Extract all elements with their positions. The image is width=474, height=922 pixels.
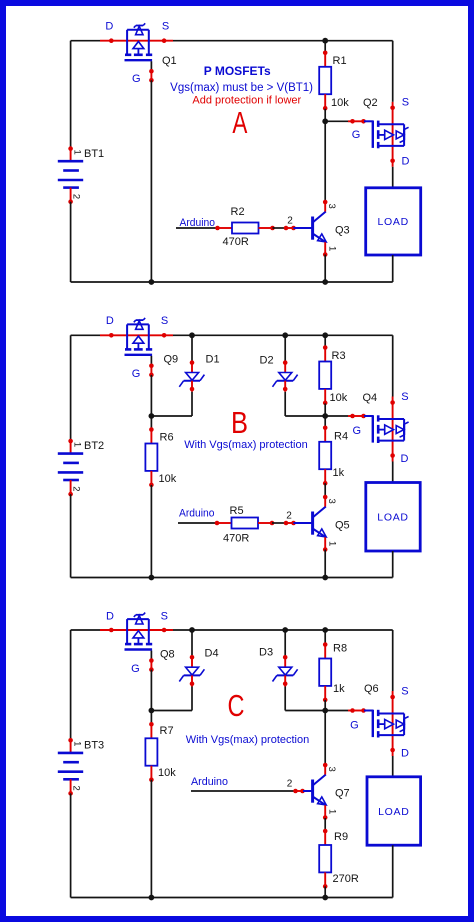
wire top rail section A [71,40,100,42]
battery BT2 [68,439,73,444]
svg-text:R9: R9 [334,831,348,843]
svg-text:1: 1 [72,149,83,154]
junction R8 top [322,627,328,633]
wire battery BT3 to rail C [70,793,72,897]
svg-text:C: C [228,688,245,723]
svg-text:1: 1 [327,246,338,251]
svg-text:B: B [231,405,248,440]
wire Arduino input C [191,790,296,792]
resistor R7 [150,724,152,738]
svg-text:R1: R1 [333,55,347,67]
junction R6 / rail B [149,575,155,581]
svg-text:G: G [132,73,141,85]
wire R7 bottom to rail C [150,780,152,898]
wire Q7 emitter to R9 [324,818,326,831]
svg-text:R7: R7 [160,725,174,737]
svg-text:Q8: Q8 [160,649,175,661]
svg-text:P MOSFETs: P MOSFETs [204,64,271,78]
wire R2 to Q3 base [273,227,287,229]
resistor R3 [324,348,326,362]
junction D3 top [282,627,288,633]
junction Q3 emitter / rail A [322,279,328,285]
wire right column B top [392,335,394,396]
svg-text:2: 2 [286,511,292,522]
svg-text:10k: 10k [330,392,348,404]
svg-text:1: 1 [72,741,83,746]
wire battery BT2 to rail B [70,494,72,577]
wire R4 bottom to Q5 collector [324,483,326,497]
wire R8 bottom to node [324,700,326,711]
svg-text:LOAD: LOAD [377,216,408,228]
svg-text:D: D [106,315,114,327]
wire Q5 emitter to rail B [324,550,326,578]
svg-text:S: S [161,315,168,327]
junction gate node C (R7 top) [149,708,155,714]
wire LOAD A to bottom rail [392,255,394,282]
svg-text:G: G [131,663,140,675]
svg-text:LOAD: LOAD [377,512,408,524]
svg-text:3: 3 [326,767,337,772]
wire node A down to Q3 collector [324,121,326,201]
zener diode D4 [191,630,193,657]
svg-text:BT2: BT2 [84,440,104,452]
svg-text:Q9: Q9 [164,354,179,366]
svg-text:Q2: Q2 [363,97,378,109]
wire R1 top lead [324,41,326,53]
resistor R5 [217,522,232,524]
svg-text:With Vgs(max) protection: With Vgs(max) protection [186,734,309,746]
svg-text:R5: R5 [230,505,244,517]
svg-text:With Vgs(max) protection: With Vgs(max) protection [184,439,307,451]
svg-text:D: D [401,453,409,465]
wire R6 top lead [150,416,152,430]
svg-text:270R: 270R [333,873,359,885]
wire R8 top lead [324,630,326,645]
wire node C to Q6 gate [325,710,348,712]
wire R6 bottom to rail B [150,485,152,578]
svg-text:D3: D3 [259,647,273,659]
junction gate node B (R6 top) [149,413,155,419]
svg-text:Vgs(max) must be > V(BT1): Vgs(max) must be > V(BT1) [170,82,313,94]
wire left column C [70,630,72,740]
svg-text:10k: 10k [331,97,349,109]
svg-text:Arduino: Arduino [191,776,228,788]
load block LOAD (C) [367,777,421,845]
wire D1 bottom to gate node B [191,392,193,416]
svg-text:Q4: Q4 [363,392,378,404]
wire bottom rail section B [71,577,393,579]
wire Arduino input B [178,522,217,524]
svg-text:1: 1 [327,541,338,546]
svg-text:D4: D4 [205,648,219,660]
wire D3 bottom to R8/Q7 node [284,687,286,711]
wire Q2 drain to LOAD A [392,167,394,188]
wire Q4 drain to LOAD B [392,462,394,483]
transistor Q5 (NPN) [311,512,314,535]
zener diode D2 [284,335,286,362]
load block LOAD (A) [366,188,421,255]
svg-text:1: 1 [72,442,83,447]
resistor R1 [324,53,326,67]
svg-text:S: S [162,21,169,33]
svg-text:1k: 1k [333,467,345,479]
wire top rail section B [71,334,100,336]
svg-text:LOAD: LOAD [378,806,409,818]
svg-text:R3: R3 [332,350,346,362]
junction node R3/R4/Q4 gate [322,413,328,419]
wire R3 bottom to node [324,403,326,416]
battery BT3 [68,738,73,743]
junction R3 top [322,332,328,338]
zener diode D1 [191,335,193,362]
svg-text:R6: R6 [160,432,174,444]
svg-text:R8: R8 [333,643,347,655]
svg-text:G: G [352,129,361,141]
junction R9 / rail C [322,895,328,901]
resistor R2 [218,227,233,229]
wire D2 bottom to R3/R4 node [284,392,286,416]
resistor R9 [324,831,326,845]
junction node R1/Q2 gate/Q3 collector [322,118,328,124]
wire right column A top [392,41,394,102]
junction Q5 emitter / rail B [322,575,328,581]
svg-text:BT1: BT1 [84,148,104,160]
wire R1 bottom to gate node A [324,109,326,122]
svg-text:G: G [350,720,359,732]
load block LOAD (B) [366,483,420,552]
svg-text:10k: 10k [158,767,176,779]
mosfet Q1 (P-channel, D left / S right) [100,40,127,42]
svg-text:Q7: Q7 [335,788,350,800]
svg-text:1k: 1k [333,683,345,695]
junction node R8/Q7 collector/Q6 gate [322,708,328,714]
svg-text:2: 2 [287,216,293,227]
wire R7 top lead [150,711,152,725]
svg-text:BT3: BT3 [84,740,104,752]
resistor R8 [324,645,326,659]
svg-text:D: D [106,610,114,622]
transistor Q7 (NPN) [311,780,314,803]
wire Q6 drain to LOAD C [392,756,394,777]
wire node C down to Q7 collector [324,711,326,766]
svg-text:G: G [132,368,141,380]
svg-text:R2: R2 [231,206,245,218]
svg-text:1: 1 [327,809,338,814]
svg-text:A: A [232,105,247,140]
svg-text:D2: D2 [260,355,274,367]
wire gate node to Q2 [325,120,348,122]
svg-text:D: D [105,21,113,33]
svg-text:Arduino: Arduino [179,508,215,520]
svg-text:2: 2 [70,194,81,199]
wire R3 top lead [324,335,326,347]
svg-text:2: 2 [70,786,81,791]
zener diode D3 [284,630,286,657]
wire Arduino input A [176,227,218,229]
wire Q9 gate down to gate node B [150,375,152,416]
svg-text:S: S [402,96,409,108]
svg-text:10k: 10k [159,473,177,485]
wire left column A (battery branch) [70,41,72,149]
wire battery BT1 to bottom rail [70,202,72,282]
junction Q1 gate / rail A [149,279,155,285]
wire LOAD B to bottom rail [392,551,394,578]
transistor Q3 (NPN) [311,217,314,240]
wire right column C top [392,630,394,691]
junction D4 top [189,627,195,633]
battery BT1 [68,146,73,151]
resistor R4 [324,428,326,442]
junction R7 / rail C [149,895,155,901]
mosfet Q8 (P-channel, D left / S right) [100,629,127,631]
svg-text:2: 2 [70,486,81,491]
svg-text:2: 2 [287,779,293,790]
junction D2 top [282,332,288,338]
svg-text:3: 3 [326,204,337,209]
wire bottom rail section A [71,281,393,283]
resistor R6 [150,430,152,444]
svg-text:Q1: Q1 [162,55,177,67]
node R1 top on rail A [322,38,328,44]
wire Q3 emitter to rail A [324,255,326,283]
svg-text:D1: D1 [206,354,220,366]
mosfet Q6 (P-channel, S top / D bottom) [392,691,394,714]
wire node B to Q4 gate [325,415,348,417]
svg-text:D: D [402,156,410,168]
wire LOAD C to bottom rail [392,845,394,897]
wire top rail section C [71,629,100,631]
svg-text:S: S [401,686,408,698]
svg-text:470R: 470R [223,236,249,248]
wire bottom rail section C [71,897,393,899]
svg-text:470R: 470R [223,533,249,545]
wire left column B [70,335,72,441]
svg-text:G: G [353,425,362,437]
svg-text:D: D [401,748,409,760]
wire D4 bottom to gate node C [191,687,193,711]
junction D1 top [189,332,195,338]
wire Q8 gate down to gate node C [150,670,152,711]
svg-text:Q5: Q5 [335,520,350,532]
svg-text:Q6: Q6 [364,683,379,695]
svg-text:S: S [401,391,408,403]
mosfet Q4 (P-channel, S top / D bottom) [392,397,394,420]
svg-text:Q3: Q3 [335,225,350,237]
svg-text:R4: R4 [334,431,348,443]
wire R4 top lead [324,416,326,428]
svg-text:S: S [161,610,168,622]
wire R9 bottom to rail C [324,886,326,897]
mosfet Q9 (P-channel, D left / S right) [100,334,127,336]
svg-text:3: 3 [326,499,337,504]
wire Q1 gate down to bottom rail [150,80,152,282]
mosfet Q2 (P-channel, S top / D bottom) [392,102,394,125]
wire R5 to Q5 base [272,522,286,524]
